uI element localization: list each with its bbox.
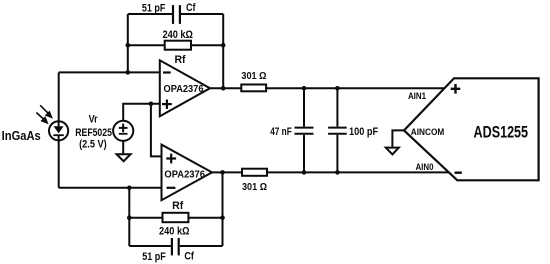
svg-text:AIN0: AIN0	[415, 162, 433, 172]
svg-text:240 kΩ: 240 kΩ	[159, 226, 190, 238]
svg-text:REF5025: REF5025	[75, 127, 112, 139]
svg-text:InGaAs: InGaAs	[2, 128, 41, 143]
svg-text:Cf: Cf	[186, 2, 196, 14]
svg-text:Vr: Vr	[89, 114, 99, 126]
svg-text:ADS1255: ADS1255	[474, 122, 529, 141]
svg-text:OPA2376: OPA2376	[164, 169, 205, 180]
svg-text:AINCOM: AINCOM	[411, 127, 445, 137]
svg-text:240 kΩ: 240 kΩ	[162, 29, 193, 41]
svg-text:Rf: Rf	[174, 54, 185, 66]
svg-text:Rf: Rf	[172, 200, 183, 212]
svg-text:100 pF: 100 pF	[349, 126, 378, 138]
svg-text:51 pF: 51 pF	[142, 251, 166, 263]
svg-text:AIN1: AIN1	[408, 91, 426, 101]
svg-text:47 nF: 47 nF	[270, 126, 292, 138]
svg-text:51 pF: 51 pF	[142, 2, 166, 14]
svg-text:OPA2376: OPA2376	[164, 84, 204, 95]
svg-text:301 Ω: 301 Ω	[241, 71, 266, 82]
svg-text:(2.5 V): (2.5 V)	[79, 139, 107, 151]
svg-text:301 Ω: 301 Ω	[242, 182, 267, 193]
svg-text:Cf: Cf	[184, 251, 194, 263]
